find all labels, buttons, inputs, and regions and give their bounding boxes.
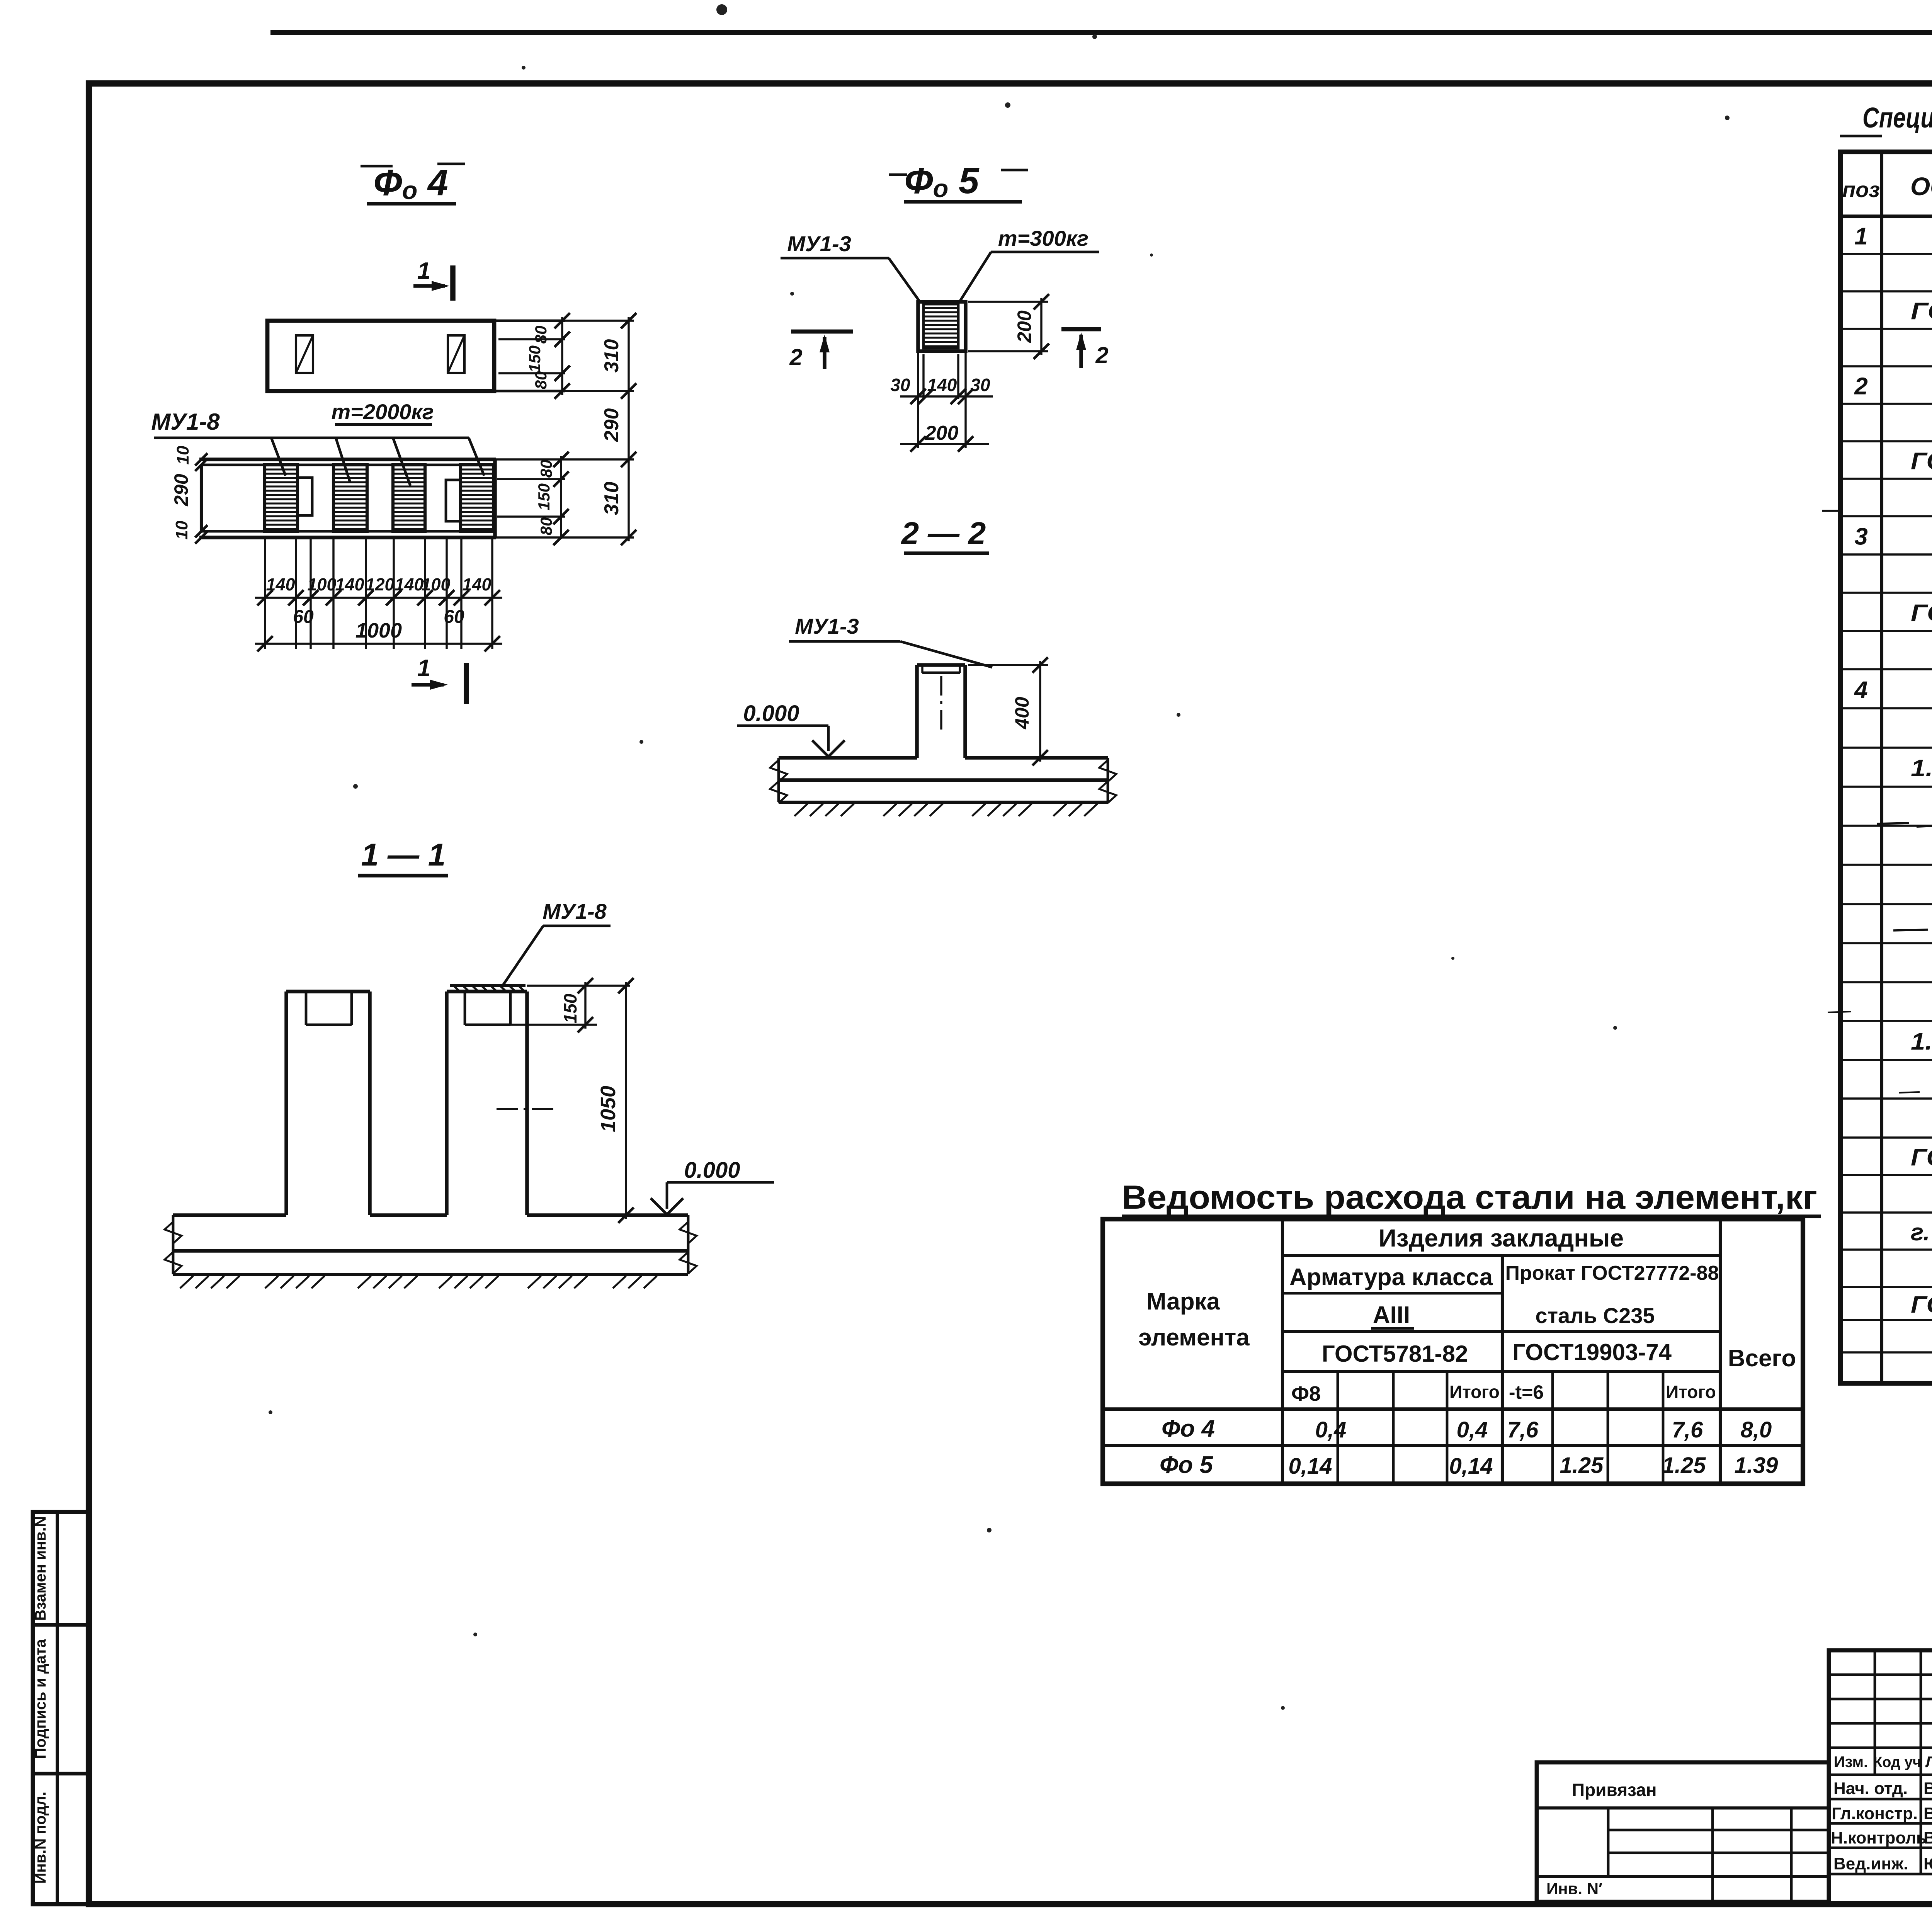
svg-text:Юдакова: Юдакова	[1923, 1854, 1932, 1873]
svg-text:ГОСТ 25192 - 82: ГОСТ 25192 - 82	[1911, 1144, 1932, 1171]
svg-text:290: 290	[600, 408, 623, 442]
svg-text:Ведомость расхода стали на эле: Ведомость расхода стали на элемент,кг	[1122, 1179, 1817, 1216]
dim 400 (2-2)	[965, 665, 1048, 665]
Fo5 embedded plate hatch	[923, 304, 958, 348]
Fo5 plan square	[918, 302, 966, 351]
embedded plate module 2	[333, 465, 367, 531]
svg-text:Гл.констр.: Гл.констр.	[1832, 1804, 1918, 1823]
overall vertical dim line 310/290/310	[628, 317, 629, 541]
svg-text:Ф8: Ф8	[1291, 1382, 1321, 1405]
svg-text:0,14: 0,14	[1449, 1454, 1493, 1479]
svg-text:1.400.2 - 25.93 Вып. 1: 1.400.2 - 25.93 Вып. 1	[1911, 1029, 1932, 1055]
scan specks	[716, 4, 727, 15]
svg-text:поз: поз	[1842, 177, 1880, 202]
embedded plate module 1	[265, 465, 298, 531]
svg-text:Вед.инж.: Вед.инж.	[1833, 1854, 1908, 1873]
svg-text:Нач. отд.: Нач. отд.	[1833, 1779, 1908, 1798]
privyazan table lines	[1537, 1806, 1829, 1810]
svg-text:150: 150	[560, 993, 580, 1023]
svg-text:2 — 2: 2 — 2	[901, 516, 986, 551]
Fo4 plan view (upper) outline	[267, 321, 494, 391]
svg-text:Подпись и дата: Подпись и дата	[32, 1639, 49, 1759]
svg-text:ГОСТ 25192 - 82: ГОСТ 25192 - 82	[1911, 448, 1932, 475]
svg-text:1.400.2 - 25.93 Вып.1: 1.400.2 - 25.93 Вып.1	[1911, 755, 1932, 782]
svg-text:1000: 1000	[355, 619, 402, 642]
svg-text:Инв.N подл.: Инв.N подл.	[32, 1792, 49, 1884]
column 2 anchor recess	[464, 992, 466, 1025]
column 1 (1-1)	[284, 992, 288, 1215]
Fo5 dim 30/140/30	[917, 351, 919, 448]
MU1-8 plate on column 2	[450, 984, 526, 987]
plan1 side dim extension lines 80/150/80	[494, 320, 565, 322]
column 2 (1-1)	[445, 992, 449, 1215]
Fo4 plan view (lower) outline	[199, 457, 496, 461]
svg-text:Привязан: Привязан	[1572, 1780, 1657, 1800]
svg-text:АIII: АIII	[1373, 1302, 1410, 1328]
svg-text:Фо 5: Фо 5	[1160, 1452, 1214, 1478]
svg-text:1 — 1: 1 — 1	[361, 837, 446, 872]
svg-text:Взамен инв.N: Взамен инв.N	[32, 1516, 49, 1621]
embedded plate module 4	[461, 465, 493, 531]
svg-text:8,0: 8,0	[1741, 1417, 1772, 1442]
svg-text:ГОСТ5781-82: ГОСТ5781-82	[1322, 1341, 1468, 1367]
svg-text:Н.контроль: Н.контроль	[1831, 1828, 1927, 1847]
dim line 140/100/140/120/140/100/140	[255, 597, 502, 599]
svg-text:1.25: 1.25	[1560, 1453, 1604, 1478]
slab top (2-2)	[779, 756, 917, 760]
privyazan table outline	[1537, 1762, 1829, 1902]
ground hatching (2-2)	[794, 804, 808, 816]
svg-text:ГОСТ 25192 -82: ГОСТ 25192 -82	[1911, 600, 1932, 627]
svg-text:0.000: 0.000	[743, 701, 799, 726]
svg-text:ГОСТ19903-74: ГОСТ19903-74	[1512, 1339, 1672, 1365]
svg-text:2: 2	[1095, 342, 1108, 368]
svg-text:1050: 1050	[597, 1086, 620, 1132]
section mark 2 (right)	[1061, 327, 1101, 332]
svg-text:310: 310	[600, 482, 623, 515]
svg-text:ГОСТ 25192 - 82: ГОСТ 25192 - 82	[1911, 1291, 1932, 1318]
revision table horizontals	[1829, 1673, 1932, 1676]
svg-text:-t=6: -t=6	[1509, 1381, 1544, 1403]
svg-text:100: 100	[421, 575, 450, 594]
svg-text:140: 140	[395, 575, 423, 594]
plan2 side dim 80/150/80	[497, 478, 565, 480]
svg-text:200: 200	[1014, 310, 1035, 343]
svg-text:1: 1	[417, 655, 430, 682]
strip cell divider 2	[33, 1772, 89, 1776]
Fo5 dim 200 (right)	[968, 301, 1048, 303]
revision table verticals	[1874, 1650, 1876, 1775]
dim 1050 (1-1)	[625, 982, 627, 1219]
svg-text:г.: г.	[1911, 1219, 1930, 1246]
anchor opening left	[296, 335, 313, 373]
svg-text:140: 140	[335, 575, 364, 594]
pedestal walls	[915, 665, 919, 758]
svg-text:10: 10	[172, 520, 191, 539]
strip cell divider 1	[33, 1623, 89, 1627]
svg-text:140: 140	[927, 375, 957, 395]
svg-text:80: 80	[537, 460, 555, 478]
slab break right (1-1)	[687, 1215, 690, 1274]
svg-text:200: 200	[925, 422, 959, 444]
svg-text:Арматура класса: Арматура класса	[1289, 1264, 1493, 1291]
svg-text:2: 2	[789, 344, 802, 370]
specification column lines	[1880, 152, 1883, 1383]
plan2 bottom dim extension lines	[264, 537, 266, 649]
svg-text:2: 2	[1854, 373, 1867, 400]
pedestal centerline	[940, 676, 942, 696]
slab break left (1-1)	[172, 1215, 175, 1274]
svg-text:1.39: 1.39	[1735, 1453, 1778, 1478]
svg-text:Изделия закладные: Изделия закладные	[1379, 1224, 1624, 1252]
svg-text:Спецификация на монолитные: Спецификация на монолитные фундаменты	[1862, 102, 1932, 134]
svg-text:Фо 4: Фо 4	[1162, 1415, 1215, 1442]
svg-text:80: 80	[537, 517, 555, 536]
svg-text:140: 140	[462, 575, 491, 594]
MU1-3 plate underside	[922, 672, 960, 674]
svg-text:310: 310	[600, 339, 623, 373]
svg-text:элемента: элемента	[1138, 1324, 1250, 1351]
svg-text:30: 30	[890, 375, 910, 395]
anchor notch left	[298, 478, 312, 515]
svg-text:Всего: Всего	[1728, 1345, 1796, 1372]
svg-text:7,6: 7,6	[1672, 1417, 1703, 1442]
svg-text:Лист: Лист	[1925, 1753, 1932, 1770]
svg-text:Воробьева: Воробьева	[1923, 1828, 1932, 1847]
section mark 2 (left)	[791, 330, 853, 334]
left stamp strip outline	[33, 1512, 89, 1904]
svg-text:120: 120	[365, 575, 394, 594]
svg-text:Инв. N′: Инв. N′	[1546, 1879, 1602, 1898]
svg-text:Прокат ГОСТ27772-88: Прокат ГОСТ27772-88	[1505, 1262, 1719, 1284]
svg-text:Изм.: Изм.	[1834, 1753, 1868, 1770]
svg-text:МУ1-8: МУ1-8	[151, 409, 220, 435]
MU1-8 leader line	[154, 437, 469, 439]
svg-text:150: 150	[526, 345, 544, 372]
specification row lines	[1840, 253, 1932, 255]
svg-text:4: 4	[1854, 677, 1867, 704]
Fo5 dim 200 (bottom)	[918, 399, 918, 448]
ground line (2-2)	[779, 801, 1108, 804]
svg-text:1.25: 1.25	[1662, 1453, 1706, 1478]
specification header row line	[1840, 214, 1932, 218]
svg-text:ГОСТ 25192-82: ГОСТ 25192-82	[1911, 298, 1932, 325]
svg-text:0,14: 0,14	[1289, 1454, 1332, 1479]
svg-text:7,6: 7,6	[1507, 1417, 1539, 1442]
svg-text:30: 30	[970, 375, 990, 395]
anchor opening right	[448, 335, 464, 373]
column 1 anchor recess	[305, 992, 308, 1025]
svg-text:0.000: 0.000	[684, 1158, 740, 1183]
svg-text:Итого: Итого	[1449, 1382, 1500, 1402]
steel table verticals	[1281, 1219, 1284, 1484]
svg-text:400: 400	[1011, 697, 1033, 730]
svg-text:1: 1	[417, 258, 430, 284]
anchor notch right	[446, 480, 461, 521]
slab top (1-1)	[173, 1213, 286, 1217]
svg-text:1: 1	[1854, 223, 1867, 250]
dim line 1000	[255, 643, 502, 645]
svg-text:МУ1-8: МУ1-8	[543, 899, 607, 923]
svg-text:МУ1-3: МУ1-3	[787, 231, 851, 256]
svg-text:Марка: Марка	[1146, 1288, 1220, 1315]
svg-text:60: 60	[444, 607, 464, 627]
slab bottom (2-2)	[779, 778, 1108, 782]
revision table outline	[1829, 1650, 1932, 1904]
svg-text:Обозначение: Обозначение	[1910, 172, 1932, 201]
svg-text:290: 290	[170, 474, 192, 507]
slab break right	[1107, 758, 1109, 802]
steel table outer border	[1103, 1219, 1803, 1484]
svg-text:m=2000кг: m=2000кг	[331, 400, 434, 424]
ground line (1-1)	[173, 1273, 688, 1276]
extension to overall dim	[565, 320, 634, 321]
svg-text:Воробьева: Воробьева	[1923, 1779, 1932, 1798]
svg-text:сталь С235: сталь С235	[1535, 1303, 1655, 1328]
embedded plate module 3	[393, 465, 425, 531]
steel table horizontals	[1282, 1254, 1720, 1257]
plan1 side dim line 80/150/80	[561, 317, 563, 395]
stray pencil dashes in spec table	[1822, 510, 1842, 512]
svg-text:Код уч: Код уч	[1873, 1754, 1921, 1770]
svg-text:0,4: 0,4	[1457, 1417, 1488, 1442]
svg-text:3: 3	[1854, 524, 1867, 550]
plan2 left dim 10/290/10	[195, 453, 207, 466]
svg-text:Итого: Итого	[1666, 1382, 1716, 1402]
svg-text:МУ1-3: МУ1-3	[795, 614, 859, 638]
slab bottom (1-1)	[173, 1249, 688, 1253]
svg-text:80: 80	[532, 371, 550, 389]
sheet top border line	[270, 30, 1932, 35]
svg-text:m=300кг: m=300кг	[998, 226, 1088, 250]
strip label column line	[56, 1512, 59, 1904]
dim 150 (1-1)	[527, 985, 630, 986]
svg-text:Воробьева: Воробьева	[1923, 1804, 1932, 1823]
slab break left	[777, 758, 780, 802]
svg-text:0,4: 0,4	[1315, 1417, 1347, 1442]
svg-text:100: 100	[307, 575, 336, 594]
svg-text:80: 80	[532, 326, 550, 344]
svg-text:150: 150	[535, 483, 553, 510]
svg-text:10: 10	[173, 446, 192, 464]
column 2 mid reference dashes	[497, 1108, 518, 1110]
ground hatching (1-1)	[180, 1276, 193, 1288]
svg-text:60: 60	[293, 607, 314, 627]
specification table outer border	[1840, 152, 1932, 1383]
svg-text:140: 140	[266, 575, 295, 594]
